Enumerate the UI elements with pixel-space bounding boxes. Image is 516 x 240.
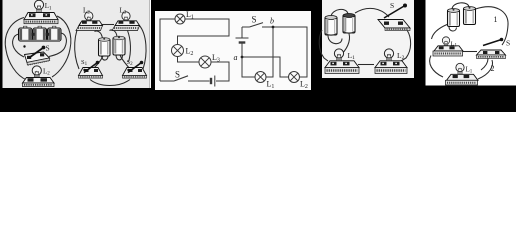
svg-text:1: 1	[494, 15, 498, 24]
svg-text:S: S	[390, 1, 394, 10]
svg-text:b: b	[270, 17, 274, 26]
svg-text:S: S	[252, 15, 257, 25]
svg-text:S: S	[506, 39, 510, 48]
svg-text:a: a	[234, 53, 238, 62]
svg-text:S: S	[175, 70, 180, 80]
svg-text:2: 2	[491, 64, 495, 73]
svg-text:S: S	[46, 44, 50, 53]
